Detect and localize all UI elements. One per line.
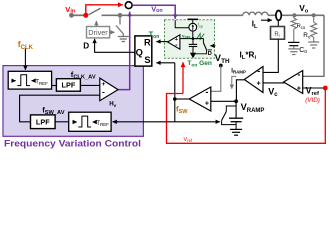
node Vramp <box>234 99 238 103</box>
wire: red Vin feed to summing node <box>86 5 123 16</box>
svg-text:Ton: Ton <box>149 30 160 41</box>
capacitor Co <box>293 29 295 42</box>
wire: S input from fsw node <box>156 62 174 64</box>
Ton Gen block background <box>165 20 215 59</box>
capacitor Ccap <box>192 39 194 45</box>
svg-text:+: + <box>257 81 261 88</box>
inductor L <box>243 12 268 15</box>
svg-text:LPF: LPF <box>36 118 50 127</box>
svg-text:Vref: Vref <box>184 137 193 143</box>
supply bar <box>188 18 199 20</box>
Frequency Variation Control block background <box>3 66 143 137</box>
ground ramp cap <box>235 122 237 130</box>
op-amp Ton comparator <box>168 35 180 49</box>
switch low-side <box>119 15 121 24</box>
wire: error amp plus from Vref <box>303 87 325 89</box>
wire: driver to high-side switch <box>95 21 97 27</box>
resistor Ri box <box>271 27 285 40</box>
wire: sense to Ri <box>277 20 279 27</box>
switch ramp discharge <box>226 106 236 112</box>
svg-text:D: D <box>208 51 212 57</box>
switch discharge Dbar <box>193 39 203 43</box>
op-amp error amp <box>284 71 303 94</box>
svg-text:D: D <box>83 41 89 50</box>
node vcap <box>192 37 195 40</box>
ground low-side <box>122 34 124 37</box>
svg-text:LPF: LPF <box>62 81 76 90</box>
svg-text:Q: Q <box>136 48 143 58</box>
wire: VTH to fsw comparator minus <box>211 66 221 92</box>
waveform sawtooth <box>196 34 204 40</box>
ground cap (arrow style) <box>192 47 194 54</box>
node VTH dot <box>219 64 223 68</box>
wire: driver to low-side switch <box>110 31 115 33</box>
svg-text:Driver: Driver <box>88 28 108 37</box>
svg-text:IL*Ri: IL*Ri <box>240 51 257 62</box>
current source Iup <box>189 23 197 31</box>
svg-text:+: + <box>297 85 301 92</box>
resistor Ro <box>313 15 315 22</box>
node switching junction (red dot) <box>83 13 88 18</box>
label Dbar with control arrow <box>210 45 215 47</box>
wire: LPF1 to Hv plus <box>80 84 99 86</box>
svg-text:IRAMP: IRAMP <box>231 68 246 74</box>
node Vin terminal <box>69 13 74 18</box>
svg-text:Ri: Ri <box>274 32 279 38</box>
node low-side junction <box>118 13 123 18</box>
svg-text:R: R <box>144 37 151 47</box>
wire: pulse1 to LPF1 <box>52 85 57 87</box>
wire: IRAMP arrow <box>232 76 237 88</box>
wire: Von entry to current source <box>175 20 189 28</box>
switch high-side <box>89 8 101 15</box>
ground Co <box>293 46 295 49</box>
pulse block TREF 2 <box>69 112 111 131</box>
svg-text:Vc: Vc <box>268 87 278 99</box>
svg-text:Vref: Vref <box>306 85 319 97</box>
svg-text:Frequency Variation Control: Frequency Variation Control <box>4 138 141 148</box>
svg-text:Vo: Vo <box>299 3 309 15</box>
filter LPF2 <box>31 115 56 129</box>
wire: error amp output Vc to Gm plus <box>263 81 284 84</box>
wire: LPF2 to Hv minus <box>20 95 100 122</box>
svg-text:Vin: Vin <box>65 5 75 14</box>
svg-text:+: + <box>205 100 209 107</box>
svg-text:S: S <box>144 55 150 65</box>
capacitor ramp <box>235 101 237 118</box>
wire: fsw tap double arrow <box>113 121 220 123</box>
svg-text:-: - <box>205 87 208 97</box>
node Vref dot <box>323 86 328 91</box>
wire: main power rail <box>72 14 87 16</box>
svg-text:Co: Co <box>299 47 307 55</box>
wire: Von purple from summing node to Ton gen <box>132 5 175 19</box>
node fsw <box>173 97 177 101</box>
svg-text:-: - <box>102 86 105 96</box>
svg-text:IL: IL <box>252 19 258 30</box>
node current sense ellipse <box>276 11 281 21</box>
ground Ro <box>313 37 315 42</box>
wire: pulse2 to LPF2 <box>55 121 69 123</box>
node Vo dot1 <box>292 13 296 17</box>
wire: current source to vcap node <box>192 31 194 38</box>
svg-text:Rco: Rco <box>297 24 306 30</box>
driver U1 <box>87 27 110 38</box>
wire: IL direction arrow <box>261 19 272 21</box>
svg-text:-: - <box>297 69 300 79</box>
wire: red Vref routing <box>167 88 326 143</box>
wire: Ton comparator output to R input <box>156 41 167 43</box>
filter LPF1 <box>56 79 80 92</box>
node Vo dot2 <box>312 13 316 17</box>
resistor Rco <box>293 15 295 18</box>
wire: Q output to driver D input <box>95 39 135 52</box>
op-amp Hv <box>100 78 118 101</box>
svg-text:VTH: VTH <box>215 52 230 65</box>
wire: fsw comparator plus from Vramp <box>211 100 236 102</box>
wire: fsw node up to S input <box>174 63 176 99</box>
svg-text:-: - <box>257 66 260 76</box>
wire: fsw output node <box>175 98 189 100</box>
latch U2 RS <box>135 36 152 66</box>
wire: vcap node to comparator <box>180 38 193 40</box>
svg-text:(VID): (VID) <box>305 97 320 104</box>
svg-text:Ro: Ro <box>303 32 311 39</box>
wire: red Vref into Ton Gen <box>182 62 184 93</box>
wire: Gm output to Vramp node <box>236 80 244 102</box>
pulse block TREF 1 <box>8 71 51 89</box>
wire: Hv output up to summing node <box>118 12 130 90</box>
svg-text:fSW: fSW <box>176 104 188 115</box>
op-amp fsw comparator <box>189 87 211 111</box>
wire: ILRi down to comparator minus <box>263 39 278 72</box>
wire: fsw node down to tap <box>174 99 176 122</box>
op-amp Gm ramp <box>244 67 263 93</box>
node summing circle <box>125 2 132 9</box>
wire: Vo feedback to error amp minus <box>303 15 324 76</box>
svg-text:VRAMP: VRAMP <box>241 102 265 114</box>
svg-text:Ton Gen: Ton Gen <box>187 60 212 68</box>
wire: fclk arrow into pulse box 1 <box>24 49 26 70</box>
